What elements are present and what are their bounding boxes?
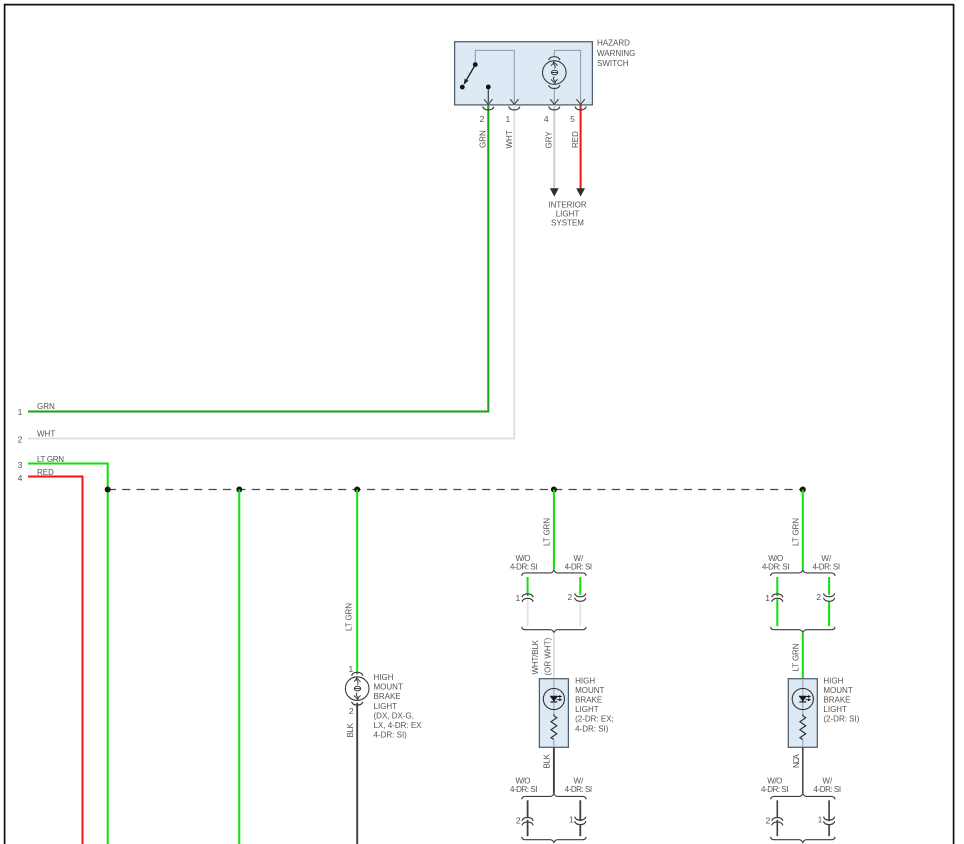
label HAZARD WARNING SWITCH: [597, 38, 635, 68]
svg-text:SYSTEM: SYSTEM: [551, 218, 584, 227]
svg-text:RED: RED: [571, 131, 580, 148]
svg-text:HIGH: HIGH: [374, 673, 394, 682]
svg-text:2: 2: [349, 706, 354, 716]
switch contact pin2: [486, 85, 491, 90]
svg-text:4-DR: SI: 4-DR: SI: [565, 563, 593, 572]
label W/ 4-DR: SI top-right D: [565, 554, 593, 572]
svg-text:4-DR: SI: 4-DR: SI: [762, 563, 790, 572]
pin 2 arrow: [484, 99, 492, 104]
svg-text:LIGHT: LIGHT: [823, 705, 847, 714]
svg-text:GRY: GRY: [545, 131, 554, 149]
brace merge bottom D: [522, 837, 586, 843]
label W/ 4-DR: SI bottom-right E: [814, 776, 842, 794]
wire stub green top-left D: [527, 577, 529, 596]
label W/O 4-DR: SI bottom-left E: [761, 776, 789, 794]
svg-text:GRN: GRN: [37, 402, 55, 411]
connector 2 E: [824, 593, 835, 601]
svg-text:1: 1: [505, 114, 510, 124]
label HIGH MOUNT BRAKE LIGHT (2-DR: EX...): [575, 676, 614, 733]
svg-text:BRAKE: BRAKE: [374, 692, 401, 701]
svg-text:BRAKE: BRAKE: [823, 696, 850, 705]
svg-text:WARNING: WARNING: [597, 49, 635, 58]
svg-text:WHT: WHT: [37, 430, 55, 439]
svg-text:HAZARD: HAZARD: [597, 38, 630, 47]
dashed bus wire: [108, 489, 803, 491]
svg-text:1: 1: [765, 593, 770, 603]
svg-text:LT GRN: LT GRN: [37, 455, 64, 464]
svg-text:LT GRN: LT GRN: [543, 518, 552, 546]
wire stub bottom-left E: [776, 800, 778, 817]
hazard warning switch box: [455, 42, 593, 105]
svg-text:INTERIOR: INTERIOR: [548, 200, 586, 209]
connector 2 bottom D: [522, 818, 533, 826]
connector 2 bottom E: [772, 818, 783, 826]
pin socket 4: [549, 107, 560, 110]
wire stub green below conn1 E: [776, 599, 778, 626]
junction node D: [551, 487, 557, 493]
label W/O 4-DR: SI top-left D: [510, 554, 538, 572]
LED E: [792, 688, 813, 709]
GRY arrow to interior light system: [550, 188, 559, 196]
connector 1 E: [772, 594, 783, 602]
svg-text:1: 1: [569, 814, 574, 824]
pin socket 5: [575, 107, 586, 110]
resistor E: [800, 714, 806, 739]
brace split top D: [522, 570, 586, 576]
brace split bottom E: [771, 794, 835, 800]
brace merge mid E: [771, 627, 835, 633]
svg-text:MOUNT: MOUNT: [823, 686, 852, 695]
switch internal wire to pin 1: [475, 50, 514, 102]
svg-text:2: 2: [18, 434, 23, 444]
svg-text:SWITCH: SWITCH: [597, 59, 629, 68]
switch blade S1: [467, 65, 476, 80]
wire GRY from pin 4: [553, 105, 555, 189]
wire LT GRN branch D: [553, 490, 555, 570]
junction node E: [800, 487, 806, 493]
wire GRN from pin 2: [28, 105, 488, 412]
svg-text:LIGHT: LIGHT: [374, 702, 398, 711]
wire 4 RED: [28, 477, 83, 844]
wire BLK below box D: [553, 747, 555, 793]
svg-text:2: 2: [766, 815, 771, 825]
svg-text:MOUNT: MOUNT: [575, 686, 604, 695]
svg-text:4-DR: SI): 4-DR: SI): [374, 731, 408, 740]
svg-text:LT GRN: LT GRN: [791, 518, 800, 546]
wire through box E: [802, 679, 804, 715]
label W/O 4-DR: SI top-left E: [762, 554, 790, 572]
switch contact lower-left: [460, 85, 465, 90]
pin 1 arrow: [510, 99, 518, 104]
brace split bottom D: [522, 794, 586, 800]
svg-text:GRN: GRN: [479, 130, 488, 148]
svg-text:LIGHT: LIGHT: [575, 705, 599, 714]
wire LT GRN branch C: [356, 490, 358, 675]
wire WHT/BLK merged D: [553, 633, 555, 679]
connector 1 bottom D: [575, 817, 586, 825]
pin 5 arrow: [576, 99, 584, 104]
svg-text:BLK: BLK: [346, 722, 355, 737]
LED D: [543, 688, 564, 709]
svg-text:4-DR: SI: 4-DR: SI: [814, 785, 842, 794]
svg-text:4-DR: SI: 4-DR: SI: [813, 563, 841, 572]
junction node A: [105, 487, 111, 493]
svg-text:(2-DR: SI): (2-DR: SI): [823, 715, 859, 724]
frame top border: [4, 4, 954, 6]
label HIGH MOUNT BRAKE LIGHT (2-DR: SI): [823, 676, 859, 723]
wire stub bottom-right E: [828, 800, 830, 821]
connector 1 D: [522, 594, 533, 602]
frame right border: [953, 4, 955, 844]
wire stub below right E: [828, 825, 830, 836]
svg-text:MOUNT: MOUNT: [374, 683, 403, 692]
connector 1 bottom E: [824, 817, 835, 825]
brace merge mid D: [522, 627, 586, 633]
wire stub blk below D: [527, 820, 529, 836]
svg-text:2: 2: [567, 592, 572, 602]
wire BLK branch C: [356, 703, 358, 844]
RED arrow to interior light system: [576, 188, 585, 196]
lamp socket arc top: [549, 57, 560, 60]
svg-text:4-DR: SI: 4-DR: SI: [510, 563, 538, 572]
pin socket 2: [483, 107, 494, 110]
svg-text:3: 3: [18, 460, 23, 470]
wire RED from pin 5: [580, 105, 582, 189]
wire stub blk bottom-left D: [527, 800, 529, 817]
svg-text:LIGHT: LIGHT: [556, 209, 580, 218]
pin 4 arrow: [550, 99, 558, 104]
wire LT GRN branch E: [802, 490, 804, 570]
resistor D: [551, 714, 557, 739]
svg-text:BLK: BLK: [542, 753, 551, 768]
wire LT GRN branch B: [238, 490, 240, 844]
wire stub green top-right E: [828, 577, 830, 595]
svg-text:1: 1: [818, 814, 823, 824]
bulb socket arc top: [352, 672, 363, 675]
wire stub wht below conn2 D: [579, 601, 581, 626]
lamp internal wire to pin 5: [554, 50, 580, 102]
brace split top E: [771, 570, 835, 576]
label W/ 4-DR: SI top-right E: [813, 554, 841, 572]
svg-text:HIGH: HIGH: [823, 676, 843, 685]
wire 3 LT GRN: [28, 464, 108, 844]
svg-text:4-DR: SI: 4-DR: SI: [761, 785, 789, 794]
svg-text:4: 4: [544, 114, 549, 124]
svg-text:(2-DR: EX;: (2-DR: EX;: [575, 715, 614, 724]
wire stub green top-right D: [579, 577, 581, 595]
wire through box D: [553, 679, 555, 715]
svg-text:1: 1: [18, 407, 23, 417]
pin socket 1: [509, 107, 520, 110]
label HIGH MOUNT BRAKE LIGHT (DX...): [374, 673, 423, 740]
LED box D high mount brake light: [539, 679, 568, 748]
svg-text:4-DR: SI: 4-DR: SI: [565, 785, 593, 794]
lamp socket arc bottom: [549, 85, 560, 88]
wire WHT from pin 1: [28, 105, 514, 439]
brace merge bottom E: [771, 837, 835, 843]
svg-text:1: 1: [348, 664, 353, 674]
svg-text:5: 5: [570, 114, 575, 124]
svg-text:(DX, DX-G,: (DX, DX-G,: [374, 711, 414, 720]
wire stub blk below right D: [579, 825, 581, 836]
wire LT GRN merged E: [802, 633, 804, 679]
svg-text:4-DR: SI: 4-DR: SI: [510, 785, 538, 794]
svg-text:4-DR: SI): 4-DR: SI): [575, 724, 609, 733]
svg-text:2: 2: [480, 114, 485, 124]
svg-text:(OR WHT): (OR WHT): [543, 637, 552, 675]
wire stub blk bottom-right D: [579, 800, 581, 821]
svg-text:1: 1: [515, 593, 520, 603]
svg-text:BRAKE: BRAKE: [575, 696, 602, 705]
hazard indicator lamp: [543, 61, 567, 85]
junction node B: [236, 487, 242, 493]
connector 2 D: [575, 593, 586, 601]
svg-text:LT GRN: LT GRN: [791, 643, 800, 671]
svg-text:WHT: WHT: [505, 130, 514, 148]
svg-text:2: 2: [816, 592, 821, 602]
frame left border: [4, 4, 6, 844]
LED box E high mount brake light: [788, 679, 817, 748]
pin 2 internal wire: [487, 89, 489, 103]
switch contact upper: [473, 62, 478, 67]
svg-text:4: 4: [18, 473, 23, 483]
wire stub below left E: [776, 820, 778, 836]
svg-text:NCA: NCA: [792, 753, 801, 768]
label W/ 4-DR: SI bottom-right D: [565, 776, 593, 794]
svg-text:LX, 4-DR: EX: LX, 4-DR: EX: [374, 721, 423, 730]
label W/O 4-DR: SI bottom-left D: [510, 776, 538, 794]
wire stub green top-left E: [776, 577, 778, 596]
junction node C: [354, 487, 360, 493]
svg-text:HIGH: HIGH: [575, 676, 595, 685]
wire NCA below box E: [802, 747, 804, 793]
svg-text:2: 2: [516, 815, 521, 825]
bulb socket arc bottom: [352, 702, 363, 705]
lamp internal wire to pin 4: [553, 88, 555, 103]
bulb B1 high mount brake light: [345, 677, 369, 701]
wire stub green below conn2 E: [828, 601, 830, 626]
svg-text:WHT/BLK: WHT/BLK: [531, 639, 540, 674]
svg-text:LT GRN: LT GRN: [345, 603, 354, 631]
wire stub wht below conn1 D: [527, 599, 529, 626]
label INTERIOR LIGHT SYSTEM: [548, 200, 586, 227]
